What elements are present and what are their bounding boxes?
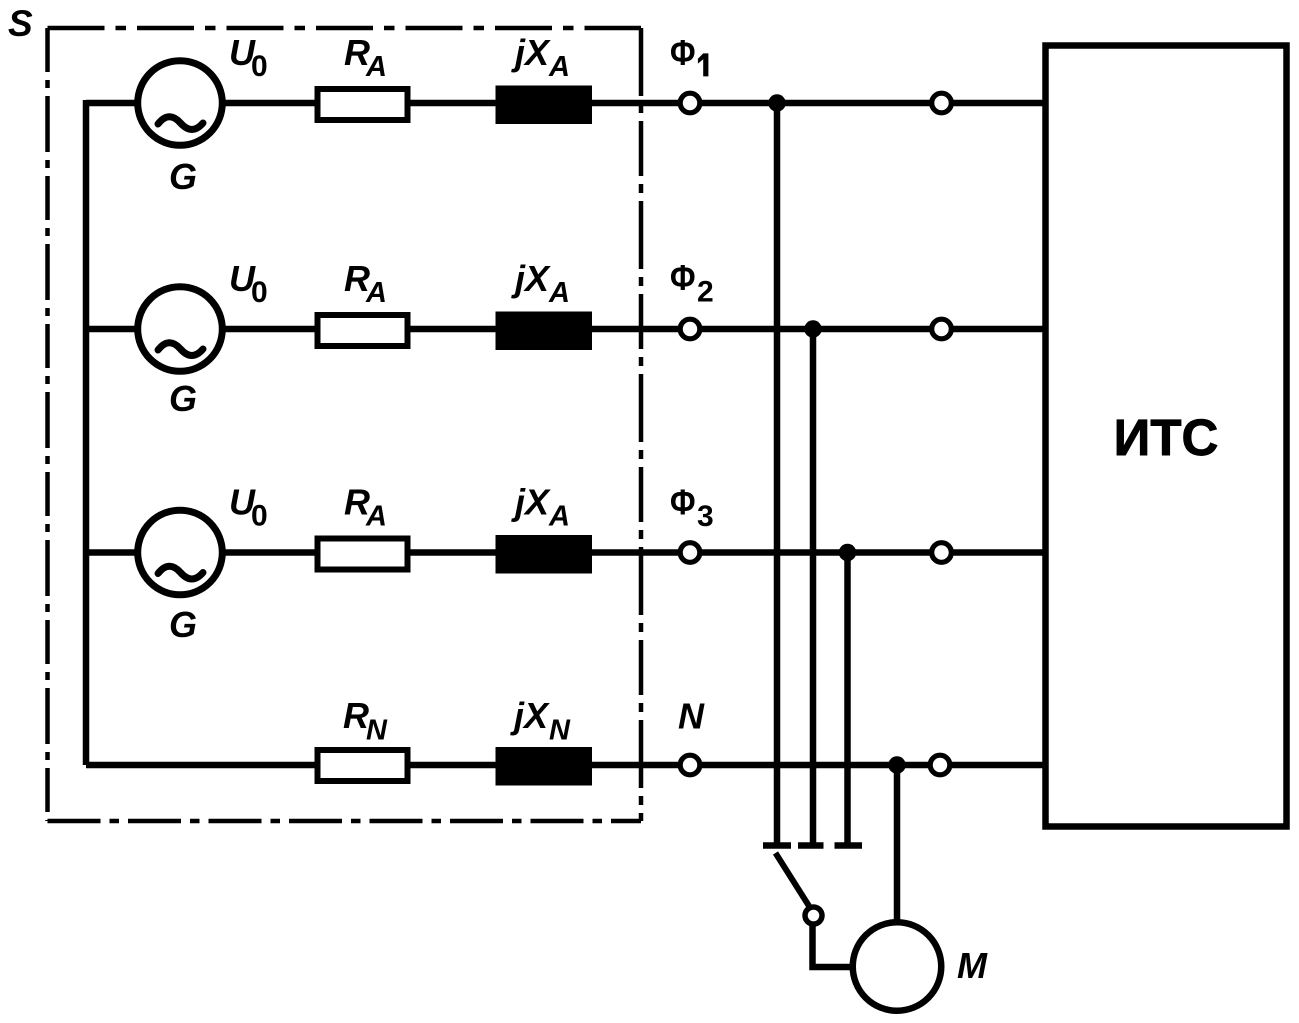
svg-text:S: S [8, 3, 33, 44]
svg-text:jX: jX [511, 258, 551, 299]
svg-text:A: A [365, 501, 387, 533]
svg-text:G: G [169, 378, 197, 419]
svg-text:Φ: Φ [670, 32, 696, 73]
svg-text:0: 0 [251, 50, 268, 83]
svg-text:0: 0 [251, 276, 268, 309]
svg-text:G: G [169, 156, 197, 197]
svg-text:jX: jX [510, 695, 550, 736]
svg-text:M: M [957, 945, 988, 986]
svg-text:A: A [548, 277, 570, 309]
svg-text:A: A [548, 501, 570, 533]
svg-text:N: N [366, 715, 388, 747]
svg-text:A: A [548, 51, 570, 83]
svg-text:N: N [549, 715, 571, 747]
svg-text:jX: jX [511, 32, 551, 73]
svg-text:G: G [169, 604, 197, 645]
svg-text:2: 2 [697, 276, 714, 309]
svg-text:Φ: Φ [670, 257, 696, 298]
svg-text:0: 0 [251, 500, 268, 533]
svg-text:jX: jX [511, 482, 551, 523]
svg-text:A: A [365, 51, 387, 83]
svg-text:ИТС: ИТС [1114, 409, 1219, 466]
svg-text:A: A [365, 277, 387, 309]
svg-text:Φ: Φ [670, 482, 696, 523]
svg-text:N: N [678, 696, 705, 737]
svg-text:3: 3 [697, 500, 714, 533]
